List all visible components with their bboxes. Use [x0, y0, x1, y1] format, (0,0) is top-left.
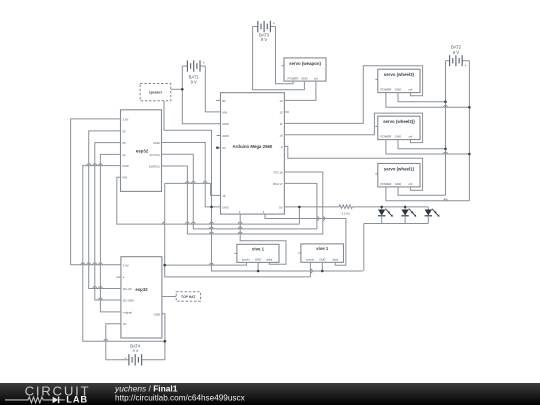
svg-text:3.3V: 3.3V [122, 117, 128, 121]
svg-text:GND: GND [222, 134, 228, 138]
junction servo GND on BAT2- bus [444, 148, 447, 151]
wire esp32top.GND(right) to Arduino.GND2 [162, 143, 221, 207]
svg-text:RX2 17: RX2 17 [273, 182, 283, 186]
wire hop [210, 232, 214, 234]
svg-text:9 V: 9 V [453, 50, 459, 55]
junction 5V rail node [163, 264, 166, 267]
wire net GND esp32top.GND down left bus [83, 166, 165, 342]
wire servo wheel1 GND to BAT2- [398, 187, 446, 195]
wire BAT1- to Arduino.GND [182, 66, 220, 124]
svg-text:11: 11 [280, 122, 283, 126]
LED D3 [425, 207, 440, 224]
wire servo wheel1 POWER to BAT2+ [386, 187, 470, 201]
wire net 3V3 esp32top.3.3V to esp32bot.3.3V [71, 119, 121, 265]
svg-text:http://circuitlab.com/c64hse49: http://circuitlab.com/c64hse499uscx [115, 394, 245, 403]
svg-text:I2C-SDA: I2C-SDA [123, 299, 134, 303]
svg-text:yuchens / Final1: yuchens / Final1 [114, 383, 178, 393]
wire stub Arduino left pin1 [216, 99, 221, 101]
wire BAT2+ bus [468, 61, 470, 201]
wire net 5V rail to vive1R.power [165, 265, 311, 277]
svg-text:16: 16 [222, 194, 226, 198]
svg-text:17(TX2): 17(TX2) [149, 153, 159, 157]
wire net 5V to vive1L.power [165, 262, 247, 265]
wire resistor to LED rail top [353, 206, 429, 208]
wire hop [444, 199, 448, 201]
svg-text:3.3V: 3.3V [123, 263, 129, 267]
LED D1 [378, 207, 393, 224]
svg-text:ctrl: ctrl [408, 182, 412, 186]
wire hop [186, 222, 190, 224]
wire stub Arduino right pin12 [284, 111, 289, 113]
wire hop [191, 181, 195, 183]
wire stub Arduino left GND3 [217, 135, 221, 137]
svg-text:servo (weapon): servo (weapon) [289, 61, 321, 66]
wire hop [210, 227, 214, 229]
wire hop [323, 217, 325, 221]
wire stub Arduino left 5V [217, 147, 221, 149]
svg-text:GND: GND [153, 141, 159, 145]
wire vive1L.GND stub [257, 262, 259, 271]
svg-text:GND: GND [222, 122, 228, 126]
svg-text:GND: GND [255, 258, 261, 262]
svg-text:16(RX2): 16(RX2) [149, 165, 160, 169]
svg-text:GND: GND [395, 88, 401, 92]
wire hop [99, 298, 103, 300]
wire esp32top.17TX2 to Arduino.RX2-17 [162, 154, 317, 229]
junction vive1L GND on GND bus [257, 270, 260, 273]
svg-text:GND: GND [222, 205, 228, 209]
wire servo wheel2 ctrl to Arduino pin10 [284, 113, 422, 143]
resistor R1 3.3k [339, 205, 353, 216]
junction servo GND on BAT2- bus [444, 101, 447, 104]
wire servo wheel3 GND to BAT2- [398, 93, 446, 102]
svg-text:ctrl: ctrl [408, 88, 412, 92]
svg-text:+signal: +signal [123, 310, 133, 314]
junction LED D1 anode [380, 206, 383, 209]
wire hop [99, 263, 103, 265]
junction servo POWER on BAT2+ bus [468, 153, 471, 156]
TOP HAT (dashed) [176, 292, 200, 301]
svg-text:5V: 5V [279, 205, 283, 209]
wire net 5V diagonal jog at vertical riser [162, 221, 165, 224]
wire hop [191, 222, 195, 224]
svg-text:servo (wheel2)): servo (wheel2)) [383, 119, 415, 124]
IC U2 Arduino Mega 2560 [221, 93, 285, 214]
LED D2 [401, 207, 416, 224]
svg-text:9 V: 9 V [191, 79, 197, 84]
svg-text:power: power [306, 257, 314, 261]
wire net 5V vertical riser [164, 183, 166, 265]
svg-text:GND: GND [154, 312, 160, 316]
junction LED D2 anode [404, 206, 407, 209]
battery BAT1 9V [182, 60, 205, 84]
wire Arduino pin2 to vive1L.data [240, 214, 286, 264]
svg-text:vive 1: vive 1 [252, 246, 265, 251]
svg-text:10: 10 [279, 133, 283, 137]
wire speaker to BAT1- junction [171, 88, 183, 90]
svg-text:12: 12 [122, 153, 126, 157]
wire net IO12 esp32top.12 to esp32bot.+signal [100, 154, 121, 312]
wire net IO33 esp32top.33 to esp32bot.I2C-clk [89, 131, 121, 289]
wire net VBAT4 esp32bot.Vin to BAT4+ [106, 324, 121, 360]
svg-text:LAB: LAB [66, 395, 88, 405]
svg-text:BAT4: BAT4 [130, 343, 141, 348]
svg-text:GND: GND [319, 257, 325, 261]
IC U5 servo (wheel2) [375, 116, 420, 139]
svg-text:9 V: 9 V [133, 349, 139, 353]
svg-text:esp32: esp32 [136, 149, 149, 154]
wire servo weapon ctrl to Arduino pin13 [284, 81, 316, 100]
CircuitLab logo diode [53, 397, 59, 404]
svg-text:ctrl: ctrl [408, 135, 412, 139]
svg-text:POWER: POWER [380, 135, 391, 139]
wire hops [81, 105, 448, 341]
svg-text:3.3 kΩ: 3.3 kΩ [341, 212, 350, 216]
svg-text:25: 25 [122, 141, 126, 145]
wire stub esp32bot pin4 [116, 276, 121, 278]
svg-text:RL: RL [222, 99, 226, 103]
junction 5V at resistor feed [298, 206, 301, 209]
svg-text:power: power [242, 258, 250, 262]
wire hop [444, 105, 448, 107]
battery BAT3 9V [253, 21, 276, 43]
svg-text:POWER: POWER [380, 182, 391, 186]
battery BAT2 9V [446, 44, 470, 67]
wire net 5V esp32top.VIN [117, 177, 300, 224]
svg-text:VIN: VIN [122, 176, 127, 180]
junction GND at BAT4- [164, 340, 167, 343]
svg-text:GND: GND [122, 164, 128, 168]
wire hop [87, 164, 91, 166]
svg-text:vive 1: vive 1 [316, 246, 329, 251]
junction speaker/BAT1- node [181, 88, 184, 91]
wire hop [210, 222, 214, 224]
svg-text:I2C-clk: I2C-clk [123, 287, 133, 291]
wire Arduino pin4 to vive1R.data riser [265, 214, 346, 265]
wire hop [99, 287, 103, 289]
wire hop [238, 222, 242, 224]
wire hop [99, 164, 103, 166]
wire hop [444, 152, 448, 154]
CircuitLab logo resistor zigzag [5, 397, 53, 403]
svg-text:GND: GND [395, 182, 401, 186]
wire vive1R.GND stub [321, 262, 323, 271]
svg-text:GND: GND [395, 135, 401, 139]
wire servo wheel2 POWER to BAT2+ [386, 140, 470, 154]
wire esp32top.16RX2 to Arduino.TX2-16 [162, 166, 323, 234]
svg-text:ctrl: ctrl [314, 76, 318, 80]
svg-text:BAT2: BAT2 [451, 44, 462, 49]
svg-text:data: data [332, 257, 338, 261]
wire BAT1+ to Arduino.VIN [205, 66, 220, 112]
wire hop [81, 263, 85, 265]
IC U4 servo (wheel3) [375, 69, 420, 92]
svg-text:servo (wheel1): servo (wheel1) [384, 166, 415, 171]
svg-text:GND: GND [301, 76, 307, 80]
wire hop [203, 181, 207, 183]
battery BAT4 9V [106, 343, 165, 365]
svg-text:9 V: 9 V [261, 37, 267, 42]
svg-text:12: 12 [279, 110, 283, 114]
IC U6 servo (wheel1) [375, 164, 420, 187]
wire vive1R.power stub [309, 262, 311, 277]
wire servo wheel3 ctrl to Arduino pin11 [284, 66, 422, 124]
svg-text:speaker: speaker [149, 91, 163, 95]
wire servo wheel3 POWER to BAT2+ [386, 93, 470, 108]
svg-text:esp32: esp32 [135, 287, 148, 292]
wire Arduino.5V right to resistor [284, 206, 339, 208]
wire BAT3- to servo weapon GND [253, 27, 305, 90]
wire hop [317, 217, 319, 221]
IC U9 esp32 (bottom) [121, 257, 162, 338]
FOOTER [0, 383, 540, 405]
no-connect square Arduino left 5V [216, 147, 218, 149]
svg-text:33: 33 [122, 129, 126, 133]
wire LED cathode rail [364, 223, 429, 225]
svg-text:VIN: VIN [222, 110, 227, 114]
wire hop [93, 263, 97, 265]
wire net 5V to Arduino pin16 [165, 183, 221, 195]
junction servo POWER on BAT2+ bus [468, 106, 471, 109]
wire hop [93, 164, 97, 166]
wire LED rail to GND bus [363, 224, 365, 272]
wire hop [210, 263, 214, 265]
svg-text:13: 13 [279, 99, 283, 103]
wire net GND speaker bottom to GND bus [164, 101, 363, 271]
svg-text:Vin: Vin [123, 322, 128, 326]
wire servo wheel1 ctrl to Arduino pin9 [284, 146, 422, 190]
wire hop [104, 339, 108, 341]
wire hop [238, 227, 242, 229]
svg-text:5V: 5V [222, 146, 226, 150]
wire BAT2- bus [445, 61, 447, 196]
junction GND at Arduino GND pin [210, 206, 213, 209]
svg-text:data: data [266, 258, 272, 262]
wire servo wheel2 GND to BAT2- [398, 140, 446, 149]
IC U8 vive 1 (right) [298, 244, 343, 262]
wire esp32bot to TOP HAT [162, 296, 176, 298]
wire BAT3+ to servo weapon POWER [276, 27, 294, 84]
wire hop [93, 287, 97, 289]
svg-text:Arduino Mega 2560: Arduino Mega 2560 [232, 144, 272, 149]
IC U7 vive 1 (left) [234, 244, 279, 262]
junction vive1R GND on GND bus [321, 270, 324, 273]
speaker (dashed) [140, 84, 171, 101]
wire 5V drop from dot [298, 207, 300, 224]
svg-text:POWER: POWER [288, 76, 299, 80]
wire hop [310, 269, 312, 273]
wire hop [186, 181, 190, 183]
svg-text:servo (wheel3): servo (wheel3) [384, 72, 415, 77]
svg-text:TX2 16: TX2 16 [273, 171, 283, 175]
wire hop [238, 232, 242, 234]
IC U3 servo (weapon) [282, 58, 326, 81]
wire vive1R.data [335, 262, 346, 265]
IC U1 esp32 (top) [121, 110, 162, 192]
svg-text:TOP HAT: TOP HAT [181, 295, 196, 299]
wire net IO25 esp32top.25 to esp32bot.I2C-SDA [95, 143, 121, 300]
wire hop [87, 263, 91, 265]
wire esp32bot.GND to BAT4- [162, 314, 165, 360]
svg-text:POWER: POWER [380, 88, 391, 92]
